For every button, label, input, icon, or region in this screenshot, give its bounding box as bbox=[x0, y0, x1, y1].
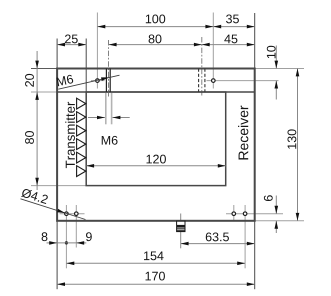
centerline bottom hole 4 vertical bbox=[244, 205, 246, 268]
centerline of left top hole bbox=[96, 13, 98, 89]
dimension 100 (top row 1) bbox=[97, 14, 213, 28]
dimension 6 (bottom-right, outside arrows) bbox=[264, 195, 278, 233]
bottom-left hole 1 bbox=[65, 212, 69, 216]
bottom-right hole 2 bbox=[243, 212, 247, 216]
top mounting band lower edge bbox=[57, 91, 255, 93]
plate outer outline 170x130 bbox=[57, 69, 255, 221]
extension line, plate right edge upward bbox=[254, 13, 256, 69]
dimension 9 (bottom-left, outside arrows) bbox=[76, 232, 91, 244]
centerline (dash-dot) left M6 hole bbox=[108, 40, 110, 97]
extension line, plate left edge upward bbox=[56, 39, 58, 69]
dimension 130 (right) bbox=[287, 69, 299, 221]
dimension 35 (top row 1) bbox=[213, 14, 254, 28]
M6 leader label (top-left) bbox=[56, 74, 119, 89]
clamping screw symbol bbox=[177, 221, 185, 231]
bottom-left hole 2 bbox=[75, 212, 79, 216]
bottom-right hole 1 bbox=[232, 212, 236, 216]
left M6 thread lines bbox=[106, 69, 110, 93]
top-left plain hole bbox=[96, 79, 100, 83]
dimension 63.5 (bottom) bbox=[181, 232, 255, 245]
extension line, inner-left edge upward bbox=[85, 39, 87, 93]
extension line, plate right edge downward bbox=[254, 221, 256, 289]
thread extension lines for M6 callout bbox=[106, 93, 112, 124]
label Transmitter bbox=[65, 102, 75, 168]
dimension 120 (inner width) bbox=[86, 155, 226, 168]
crosshair bottom-right holes horizontal bbox=[226, 213, 283, 215]
extension line, top edge rightward bbox=[255, 68, 304, 70]
junction dot between 8 and 9 dims bbox=[57, 241, 76, 244]
centerline bottom hole 1 vertical bbox=[65, 205, 67, 268]
extension line y=92 leftward bbox=[31, 91, 57, 93]
dimension 45 (top row 2) bbox=[202, 35, 255, 47]
dimension 80 (left) bbox=[25, 69, 39, 191]
extension line, plate top edge leftward bbox=[31, 68, 57, 70]
centerline (dash-dot) right M6 hole bbox=[201, 37, 203, 97]
dimension 80 (top row 2) bbox=[109, 34, 202, 46]
extension line y=185.6 leftward bbox=[31, 185, 86, 187]
dimension 8 (bottom-left, outside arrows) bbox=[42, 232, 58, 244]
transmitter beam triangles bbox=[77, 98, 86, 176]
dimension 20 (left, outside arrows) bbox=[25, 51, 39, 87]
centerline bottom hole 2 vertical bbox=[75, 205, 77, 248]
horizontal centerline right top hole bbox=[207, 80, 279, 82]
right M6 thread lines (hidden) bbox=[199, 69, 205, 93]
centerline of right top hole bbox=[212, 13, 214, 89]
horizontal centerline left top hole bbox=[91, 80, 105, 82]
dimension 10 (right, outside arrows) bbox=[267, 46, 278, 100]
extension line, plate left edge downward bbox=[56, 221, 58, 289]
top-right plain hole bbox=[212, 79, 216, 83]
centerline bottom hole 3 vertical bbox=[233, 205, 235, 221]
extension line, bottom edge rightward bbox=[255, 220, 304, 222]
dimension 154 (bottom) bbox=[66, 251, 245, 265]
hole diameter label 4.2 bbox=[21, 188, 86, 220]
dimension 170 (bottom) bbox=[57, 272, 255, 286]
screw centerline bbox=[180, 214, 182, 249]
label Receiver bbox=[238, 106, 248, 160]
crosshair bottom-left holes horizontal bbox=[60, 213, 85, 215]
M6 thread size callout bbox=[88, 116, 130, 145]
dimension 25 (top row 2) bbox=[57, 34, 86, 46]
inner opening 120x80 bbox=[86, 92, 226, 186]
